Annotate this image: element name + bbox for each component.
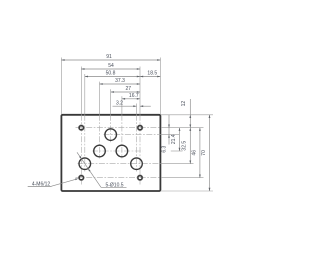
label 4-M6/12 with leader <box>28 179 79 188</box>
centerline column port P <box>110 89 112 142</box>
centerline column port B <box>121 96 123 158</box>
svg-text:91: 91 <box>106 54 112 60</box>
centerline P row <box>104 134 161 136</box>
extension line P row right <box>161 134 179 136</box>
svg-text:12: 12 <box>181 101 187 107</box>
label 5-Ø10.5 with diameter leader through port T <box>77 152 127 188</box>
extension line A-B row right <box>171 150 183 152</box>
svg-text:21.4: 21.4 <box>171 134 177 144</box>
svg-text:3.2: 3.2 <box>116 100 123 106</box>
centerline column port A <box>99 82 101 159</box>
bolt hole top right <box>137 125 143 131</box>
svg-text:37.3: 37.3 <box>115 78 125 84</box>
extension line bolt row right <box>161 127 204 129</box>
dimension 70 vertical <box>201 115 210 191</box>
centerline A-B row <box>92 150 143 152</box>
dimension 18.5 <box>140 71 160 78</box>
centerline column port T <box>84 74 86 172</box>
svg-text:50.8: 50.8 <box>106 71 116 77</box>
centerline bolt row bottom <box>76 177 161 179</box>
centerline T row <box>78 163 161 165</box>
dimension 46 vertical <box>192 128 201 178</box>
centerline column port T2 <box>136 104 138 172</box>
bolt hole top left <box>78 125 84 131</box>
extension line bolt row 2 right <box>161 177 204 179</box>
port B <box>116 145 128 157</box>
dimension 21.4 vertical <box>171 128 181 151</box>
dimension 50.8 <box>85 71 140 78</box>
port A <box>94 145 106 157</box>
svg-text:27: 27 <box>126 86 132 92</box>
dimension 54 <box>81 63 140 70</box>
dimension 32.5 vertical <box>182 128 192 164</box>
extension line right edge <box>159 58 161 115</box>
extension line T row right <box>161 163 194 165</box>
dimension 16.7 <box>122 93 140 100</box>
svg-text:70: 70 <box>201 150 207 156</box>
port T2 <box>131 158 143 170</box>
plate body outline <box>61 115 160 191</box>
dimension 6.3 vertical <box>162 115 170 153</box>
svg-text:54: 54 <box>108 63 114 69</box>
centerline column bolt right <box>139 67 141 185</box>
dimension 3.2 <box>113 100 151 107</box>
dimension 27 <box>111 86 140 93</box>
dimension 91 <box>61 54 160 61</box>
port T <box>79 158 91 170</box>
bolt hole bottom right <box>137 175 143 181</box>
port P <box>105 129 117 141</box>
centerline column bolt left <box>80 67 82 185</box>
dimension 12 vertical <box>181 99 191 128</box>
svg-text:46: 46 <box>192 150 198 156</box>
bolt hole bottom left <box>78 175 84 181</box>
svg-text:32.5: 32.5 <box>182 141 188 151</box>
centerline bolt row top <box>76 127 161 129</box>
extension line plate top right <box>161 114 213 116</box>
dimension 37.3 <box>100 78 141 85</box>
svg-text:6.3: 6.3 <box>162 146 168 153</box>
extension line plate bottom right <box>161 190 213 192</box>
svg-text:16.7: 16.7 <box>129 93 139 99</box>
svg-text:18.5: 18.5 <box>147 71 157 77</box>
extension line left edge <box>60 58 62 115</box>
